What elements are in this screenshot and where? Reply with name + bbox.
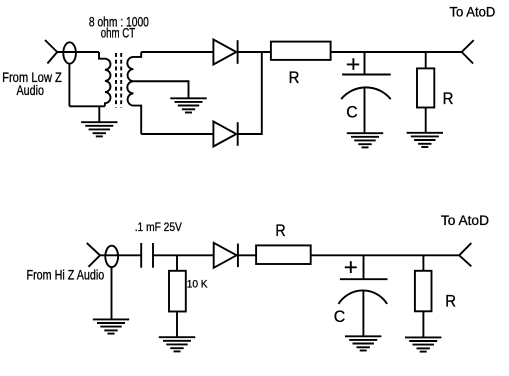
resistor R1 (box): [271, 42, 331, 60]
svg-text:ohm CT: ohm CT: [101, 25, 135, 40]
resistor R2 stub: [425, 52, 427, 68]
wire: secondary center tap: [133, 81, 188, 98]
svg-text:R: R: [445, 291, 456, 310]
wire: secondary bottom to diode D2: [141, 133, 213, 135]
svg-text:C: C: [334, 307, 346, 326]
output jack J2 (To AtoD): [462, 40, 474, 63]
wire: D2 cathode up to node A: [238, 52, 262, 134]
resistor R2 (box): [417, 68, 434, 107]
capacitor C1 (polarized): [341, 58, 391, 133]
diode D2: [213, 122, 237, 147]
wire: R5 to ground: [176, 312, 178, 338]
svg-text:Audio: Audio: [17, 83, 45, 98]
svg-text:R: R: [443, 89, 454, 108]
svg-text:To AtoD: To AtoD: [450, 5, 496, 20]
resistor R3 (box): [256, 245, 311, 264]
ground (C1): [347, 133, 383, 147]
ground (center tap): [170, 98, 206, 112]
capacitor C3 (.1 mF 25V): [141, 243, 153, 268]
output jack J4 (To AtoD): [459, 243, 471, 266]
svg-text:R: R: [289, 68, 300, 87]
wire: primary bottom lead: [69, 105, 105, 107]
input jack J1 (From Low Z Audio): [45, 40, 76, 64]
wire: R4 to ground: [422, 311, 424, 337]
resistor R4 (box): [415, 271, 432, 312]
wire: D1 cathode to resistor R1: [238, 51, 271, 53]
transformer T1 core: [116, 53, 121, 108]
svg-text:R: R: [275, 221, 285, 240]
svg-text:To AtoD: To AtoD: [441, 213, 489, 228]
diode D3: [214, 243, 238, 268]
wire: primary ground stub: [98, 106, 100, 122]
ground (R2): [407, 133, 443, 147]
wire: C3 to diode D3: [153, 254, 214, 256]
resistor R5 stub (10 K): [176, 255, 178, 270]
wire: R3 to output jack J4: [311, 254, 460, 256]
resistor R4 stub: [422, 255, 424, 270]
wire: R1 to output jack J2: [331, 51, 462, 53]
ground (J3): [93, 319, 129, 333]
transformer T1 secondary winding: [127, 52, 141, 134]
wire: jack J3 sleeve to ground: [111, 267, 113, 319]
capacitor C2 (polarized): [339, 261, 388, 336]
wire: D3 cathode to resistor R3: [238, 254, 256, 256]
wire: jack J1 sleeve down to primary bottom lead: [68, 64, 70, 107]
capacitor C2 stub: [363, 255, 365, 279]
transformer T1 primary winding: [99, 52, 110, 106]
wire: secondary top to diode D1: [141, 51, 213, 53]
svg-text:C: C: [346, 103, 357, 122]
wire: R2 to ground: [425, 108, 427, 133]
svg-text:.1 mF 25V: .1 mF 25V: [135, 220, 182, 234]
ground (R4): [405, 337, 441, 351]
diode D1: [213, 40, 237, 65]
ground (C2): [345, 336, 381, 350]
svg-text:From Hi Z Audio: From Hi Z Audio: [27, 268, 105, 283]
wire: jack J1 to transformer primary top: [57, 51, 99, 53]
capacitor C1 stub: [364, 52, 366, 75]
wire: jack J3 to capacitor C3: [100, 254, 141, 256]
svg-text:10 K: 10 K: [187, 279, 209, 291]
ground (R5): [159, 337, 195, 351]
ground (primary): [81, 122, 117, 136]
resistor R5 (box, 10 K): [169, 271, 186, 312]
input jack J3 (From Hi Z Audio): [87, 243, 118, 267]
